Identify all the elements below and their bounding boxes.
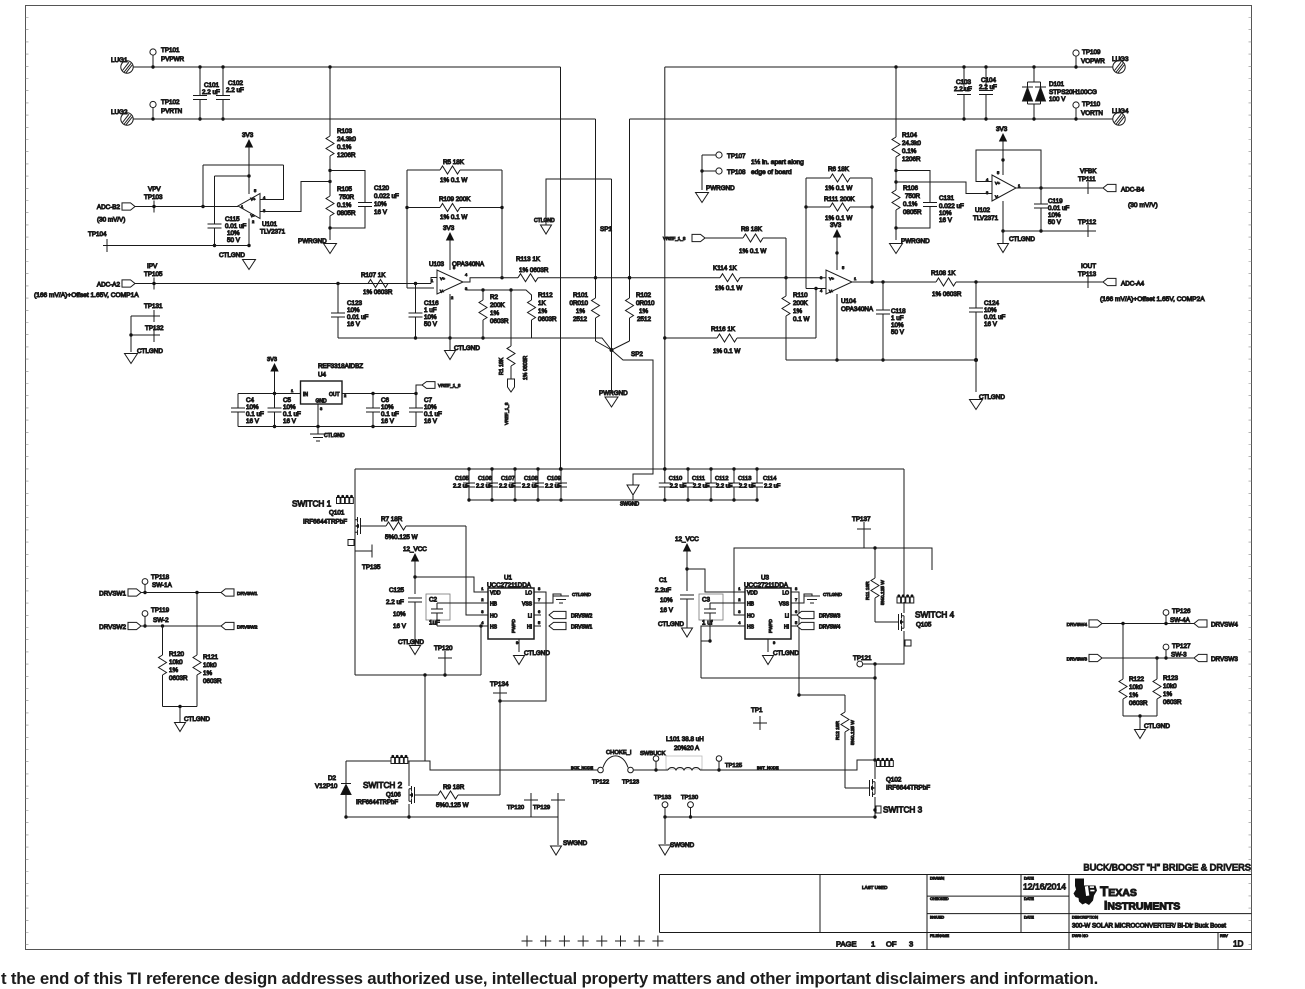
svg-text:C106: C106 [478,476,492,482]
wire U103 feedback box [407,170,504,288]
op-amp U104 [820,265,874,313]
svg-text:TEXAS: TEXAS [1100,884,1137,899]
svg-text:10%: 10% [1048,212,1061,219]
svg-text:OF: OF [886,940,897,949]
svg-text:TLV2371: TLV2371 [260,229,286,236]
testpoint TP134 [490,681,509,795]
connector tag VREF_1_8 (U4) [416,382,461,394]
ground PWRGND (R105) [298,228,337,254]
svg-text:3: 3 [909,940,913,949]
ground CTLGND (U101) [219,252,256,270]
ground SWGND (right) [659,817,695,855]
wire LO drive (U1) [498,592,546,703]
svg-text:2.2 uF: 2.2 uF [979,84,997,91]
connector tag VREF_1_8 (R8) [663,234,705,241]
svg-text:BCK_NODE: BCK_NODE [571,765,593,770]
ground CTLGND (U102) [998,231,1036,253]
connector tag DRVSW1 (left out) [221,589,258,597]
svg-text:VSS: VSS [522,602,533,608]
svg-text:DRVSW3: DRVSW3 [1067,657,1088,663]
svg-text:V12P10: V12P10 [315,783,338,790]
svg-text:10k0: 10k0 [169,659,183,666]
svg-text:SW-4A: SW-4A [1170,617,1191,624]
power 3V3 (U4) [267,357,279,394]
svg-text:2.2 uF: 2.2 uF [453,484,470,490]
svg-text:CHOKE_I: CHOKE_I [606,750,632,756]
resistor R103 [326,65,356,172]
svg-text:TP118: TP118 [151,574,170,581]
wire cap bank ground rail [469,499,757,501]
connector tag ADC-B4 [1103,184,1145,193]
svg-text:1% 0.1 W: 1% 0.1 W [825,215,852,222]
svg-text:TP111: TP111 [1078,176,1096,183]
ground PWRGND (SP2) [599,390,628,407]
svg-text:Q102: Q102 [886,777,902,784]
power 3V3 (U103) [443,225,455,270]
svg-text:C3: C3 [702,597,711,604]
wire R105 box [328,171,365,230]
svg-text:16 V: 16 V [347,321,361,328]
svg-text:R105: R105 [337,186,353,193]
wire U101 V+ decoupling [215,174,251,224]
wire U103 output [463,278,518,282]
svg-text:24.3k0: 24.3k0 [337,136,356,143]
testpoint TP128 [507,793,538,817]
ground CTLGND (U1 VSS) [541,592,592,603]
capacitor C123 [331,282,369,338]
svg-text:C116: C116 [424,300,439,307]
capacitor C6 [366,394,399,429]
svg-text:STPS20H100CG: STPS20H100CG [1049,89,1097,96]
title block date [1023,882,1066,892]
svg-text:0.1 uF: 0.1 uF [283,411,301,418]
diode D101 [1022,65,1097,120]
resistor R9 [422,784,500,809]
svg-text:SW-2: SW-2 [153,617,169,624]
svg-text:R106: R106 [903,185,919,192]
svg-text:IRF6644TRPbF: IRF6644TRPbF [356,800,398,806]
svg-text:Q106: Q106 [386,793,401,799]
power 3V3 (U101) [242,132,254,194]
svg-text:1uF: 1uF [429,620,440,627]
svg-text:TP121: TP121 [853,655,872,662]
svg-text:2512: 2512 [637,316,652,323]
svg-text:VDD: VDD [490,591,501,597]
svg-text:0.1 W: 0.1 W [793,316,810,323]
svg-text:IRF6644TRPbF: IRF6644TRPbF [303,519,347,526]
capacitor C118 [876,280,906,361]
svg-text:TP105: TP105 [144,271,163,278]
svg-text:2.2 uF: 2.2 uF [226,87,244,94]
svg-text:0.022 uF: 0.022 uF [939,203,964,210]
svg-text:PVPWR: PVPWR [161,56,185,63]
svg-text:TP120: TP120 [434,645,453,652]
ground CTLGND (U1 pad) [514,639,551,665]
svg-text:0603R: 0603R [169,675,188,682]
ground CTLGND (SP1 tie) [534,179,612,234]
power 3V3 (U102) [996,126,1008,175]
svg-text:CTLGND: CTLGND [1009,236,1035,243]
testpoint TP121 [853,655,872,667]
svg-text:R108 1K: R108 1K [931,270,956,277]
svg-text:Q105: Q105 [916,622,932,629]
label SWITCH 1 [292,500,332,509]
wire R7 to HO [466,526,481,615]
svg-text:HO: HO [747,614,755,620]
svg-text:V+: V+ [995,181,1001,186]
connector tag VREF_1_8 (R1) [504,379,515,425]
wire BCK_NODE [425,761,598,770]
svg-text:12_VCC: 12_VCC [403,546,427,553]
wire U101 feedback loop [201,165,283,208]
svg-text:SWGND: SWGND [563,840,588,847]
svg-text:U3: U3 [761,575,770,582]
svg-text:0.1 uF: 0.1 uF [246,411,264,418]
svg-text:C113: C113 [738,476,751,482]
svg-text:GND: GND [315,399,327,405]
svg-text:3V3: 3V3 [830,222,842,229]
wire sense bus right [784,276,826,279]
svg-text:R7 18R: R7 18R [381,516,403,523]
capacitor C1 [655,577,694,628]
svg-text:SW-3: SW-3 [1171,652,1187,659]
svg-text:R110: R110 [793,292,808,299]
svg-text:TP110: TP110 [1082,101,1101,108]
capacitor C125 [386,587,422,645]
resistor R113 [516,256,596,282]
svg-text:R113 1K: R113 1K [516,256,541,263]
svg-text:V+: V+ [251,197,257,202]
svg-text:TP131: TP131 [144,303,163,310]
svg-text:10k0: 10k0 [203,662,217,669]
svg-text:R109 200K: R109 200K [439,196,471,203]
svg-text:TP133: TP133 [654,795,671,801]
wire SWITCH2 drain bus [346,760,425,762]
svg-text:SWITCH 4: SWITCH 4 [915,611,955,620]
svg-text:1% 0.1 W: 1% 0.1 W [825,185,852,192]
resistor R106 [892,185,922,216]
wire DRVSW4 row [1102,622,1194,625]
connector tag DRVSW2 (left out) [221,622,258,630]
svg-text:DRVSW1: DRVSW1 [571,625,593,631]
testpoint TP107 [702,152,746,160]
svg-text:C124: C124 [984,300,1000,307]
svg-text:10%: 10% [891,322,904,329]
svg-text:DRVSW1: DRVSW1 [99,591,126,598]
resistor R122 [1119,624,1148,717]
svg-text:DRVSW2: DRVSW2 [237,625,258,631]
svg-text:2.2 uF: 2.2 uF [545,484,562,490]
svg-text:R111 200K: R111 200K [824,196,855,203]
svg-text:CTLGND: CTLGND [137,348,163,355]
testpoint TP119 [142,607,169,628]
svg-text:IN: IN [303,392,308,398]
svg-text:1: 1 [871,940,875,949]
svg-text:C104: C104 [981,77,997,84]
svg-text:R103: R103 [337,128,353,135]
svg-text:V+: V+ [440,276,446,281]
svg-text:C125: C125 [389,587,405,594]
svg-text:300-W SOLAR MICROCONVERTER/ Bi: 300-W SOLAR MICROCONVERTER/ Bi-Dir Buck … [1072,923,1226,930]
capacitor C101 [193,65,220,120]
svg-text:TP126: TP126 [1172,608,1191,615]
svg-text:1% 0.1 W: 1% 0.1 W [713,348,740,355]
svg-text:SWGND: SWGND [670,842,695,849]
svg-text:1D: 1D [1233,940,1244,949]
svg-text:TP132: TP132 [145,325,164,332]
svg-text:LO: LO [525,591,532,597]
svg-text:LUG3: LUG3 [1112,56,1129,63]
capacitor C106 [476,467,498,501]
resistor R120 [159,626,189,707]
wire PVPWR rail right [665,66,1113,68]
ground CTLGND (U104) [970,360,1006,410]
svg-text:HB: HB [490,602,498,608]
svg-text:CTLGND: CTLGND [534,218,555,224]
svg-text:LI: LI [528,614,532,620]
svg-text:C120: C120 [374,185,390,192]
testpoint TP133 [654,795,671,819]
wire U4 input rail [238,388,301,395]
svg-text:2.2 uF: 2.2 uF [202,89,220,96]
svg-text:1%: 1% [203,670,213,677]
resistor R111 [804,196,873,222]
ground SWGND (SW2) [551,817,588,855]
svg-text:TP123: TP123 [622,780,639,786]
capacitor C112 [705,467,733,501]
resistor R8 [705,226,786,255]
node SP2 [596,341,644,358]
capacitor C131 [923,195,964,224]
capacitor C110 [659,467,687,501]
ground CTLGND (C125) [398,639,424,655]
svg-text:CTLGND: CTLGND [454,345,480,352]
svg-text:0.01 uF: 0.01 uF [225,223,247,230]
svg-text:1%: 1% [169,667,179,674]
op-amp U101 [238,188,286,236]
svg-text:R123: R123 [1163,675,1179,682]
svg-text:0.1%: 0.1% [337,202,352,209]
svg-text:CTLGND: CTLGND [658,621,684,628]
svg-text:2.2 uF: 2.2 uF [522,484,539,490]
ground PWRGND (TP108) [696,185,736,203]
wire HO drive (U3) [734,546,932,615]
wire U101 output to ADC-B2 [135,206,238,208]
svg-text:24.3k0: 24.3k0 [902,140,921,147]
svg-text:1K: 1K [538,300,547,307]
wire U102 feedback [976,150,1043,190]
svg-text:TP119: TP119 [151,607,170,614]
svg-text:D2: D2 [328,775,337,782]
svg-text:ADC-B2: ADC-B2 [97,204,121,211]
svg-text:SWITCH 1: SWITCH 1 [292,500,332,509]
capacitor C119 [1034,188,1070,233]
svg-text:0603R: 0603R [538,316,557,323]
ground CTLGND (C1) [658,621,693,637]
svg-text:0805R: 0805R [903,209,922,216]
testpoint TP131 [131,303,163,352]
svg-text:HB: HB [747,602,755,608]
label SWITCH 3 [873,806,922,815]
svg-text:PVRTN: PVRTN [161,108,183,115]
svg-text:C110: C110 [669,476,682,482]
svg-text:VREF_1_8: VREF_1_8 [438,383,461,388]
wire BST_NODE [700,760,875,772]
wire CTLGND rail (U102) [1003,230,1096,232]
svg-text:TP107: TP107 [727,153,746,160]
diode D2 [315,761,351,819]
svg-text:OUT: OUT [329,392,340,398]
testpoint TP108 [700,168,746,176]
svg-text:TP120: TP120 [507,805,524,811]
svg-text:PWRGND: PWRGND [901,238,930,245]
lug LUG2 [111,109,133,125]
svg-text:PWRGND: PWRGND [706,185,735,192]
svg-text:ADC-B4: ADC-B4 [1121,187,1145,194]
testpoint TP101 [150,47,185,69]
svg-text:U1: U1 [504,575,513,582]
svg-text:10%: 10% [393,611,406,618]
svg-text:BST_NODE: BST_NODE [757,765,779,770]
svg-text:SW-1A: SW-1A [152,582,173,589]
svg-text:TP103: TP103 [144,194,163,201]
svg-text:IPV: IPV [147,263,158,270]
wire CTLGND analog rail [338,338,612,350]
svg-text:R104: R104 [902,132,918,139]
svg-text:HI: HI [784,625,789,631]
svg-text:3V3: 3V3 [996,126,1008,133]
svg-text:16 V: 16 V [246,418,260,425]
resistor R110 [782,278,810,360]
connector tag DRVSW4 (right in) [1067,620,1102,628]
svg-text:1% 0603R: 1% 0603R [932,291,962,298]
svg-text:16 V: 16 V [283,418,297,425]
capacitor C105 [453,467,475,501]
ground PWRGND (R106) [890,228,931,254]
svg-text:U4: U4 [318,372,327,379]
wire R120 R121 ground rail [163,705,198,708]
svg-text:C109: C109 [547,476,561,482]
svg-text:R116 1K: R116 1K [711,326,736,333]
svg-text:V-: V- [251,213,255,218]
svg-text:2.2 uF: 2.2 uF [476,484,493,490]
svg-text:V-: V- [829,289,833,294]
svg-text:C7: C7 [424,397,433,404]
svg-text:DESCRIPTION: DESCRIPTION [1072,916,1098,920]
wire choke to SWBUCK [633,768,668,771]
svg-text:1 uF: 1 uF [891,315,904,322]
svg-text:1%: 1% [538,308,548,315]
svg-text:DRVSW3: DRVSW3 [1211,656,1238,663]
connector tag ADC-B2 [97,203,135,224]
svg-text:C118: C118 [891,308,906,315]
wire SP2 to PWRGND [611,350,613,393]
svg-text:10%: 10% [374,201,387,208]
testpoint TP118 [142,574,173,594]
svg-text:DRVSW2: DRVSW2 [99,624,126,631]
svg-text:12_VCC: 12_VCC [675,536,699,543]
svg-text:TLV2371: TLV2371 [973,215,999,222]
connector tag DRVSW1 (left in) [99,589,141,598]
wire SW1 node drop [424,675,426,761]
connector tag DRVSW3 (right out) [1194,654,1238,663]
svg-text:R121: R121 [203,654,219,661]
svg-text:TP130: TP130 [681,795,698,801]
resistor R102 [626,292,656,341]
ground CTLGND (U3 pad) [763,639,800,665]
svg-text:1%: 1% [793,308,803,315]
wire PVRTN rail right [630,118,1113,120]
svg-text:R102: R102 [636,292,652,299]
svg-text:U103: U103 [429,261,445,268]
wire DRVSW2 row [141,624,221,627]
svg-text:R107 1K: R107 1K [361,272,386,279]
svg-text:CTLGND: CTLGND [398,639,424,646]
svg-text:ADC-A2: ADC-A2 [97,282,121,289]
inductor L101 [666,736,704,770]
svg-text:PWRGND: PWRGND [298,238,327,245]
svg-text:CTLGND: CTLGND [1144,723,1170,730]
svg-text:1%: 1% [639,308,649,315]
capacitor C108 [522,467,544,501]
svg-text:U101: U101 [262,221,278,228]
svg-text:0R010: 0R010 [569,300,588,307]
resistor R6 [825,166,852,192]
svg-text:2512: 2512 [573,316,588,323]
ground CTLGND (right drv) [1135,716,1171,739]
title block labels [862,877,1228,939]
testpoint TP126 [1163,608,1191,624]
svg-text:0805R: 0805R [337,210,356,217]
svg-text:(166 mV/A)+Offset 1.65V, COMP2: (166 mV/A)+Offset 1.65V, COMP2A [1100,296,1205,303]
svg-text:PAGE: PAGE [836,940,857,949]
svg-text:1%: 1% [576,308,586,315]
svg-text:10%: 10% [660,597,673,604]
svg-text:DRVSW2: DRVSW2 [571,614,593,620]
svg-text:3V3: 3V3 [242,132,254,139]
svg-text:U104: U104 [841,298,857,305]
svg-text:LAST USED: LAST USED [862,885,888,890]
wire U104 feedback box [806,178,874,289]
wire U104 output [852,280,936,283]
title block page [836,940,913,949]
svg-text:0603R: 0603R [490,318,509,325]
svg-text:IOUT: IOUT [1081,263,1096,270]
transistor Q106 [356,761,422,819]
resistor R104 [892,65,921,172]
svg-text:2.2 uF: 2.2 uF [764,484,781,490]
svg-text:C108: C108 [524,476,538,482]
svg-text:C111: C111 [692,476,705,482]
op-amp U102 [973,170,1021,222]
wire VOPWR drop [664,67,666,469]
capacitor C107 [499,467,521,501]
wire HV bus rail [355,467,904,470]
testpoint TP103 [144,186,163,213]
svg-text:edge of board: edge of board [751,169,792,176]
svg-text:200K: 200K [793,300,809,307]
svg-text:DATE: DATE [1024,916,1034,920]
wire divider sense to U102 [896,182,992,194]
pin header SWITCH3 [877,758,894,767]
label SWITCH 2 [363,781,403,790]
svg-text:0.1%: 0.1% [903,201,918,208]
resistor R107 [338,272,431,296]
capacitor C103 [954,65,972,120]
lug LUG3 [1112,56,1129,73]
svg-text:CTLGND: CTLGND [219,252,245,259]
wire U103 V- node [466,288,532,300]
